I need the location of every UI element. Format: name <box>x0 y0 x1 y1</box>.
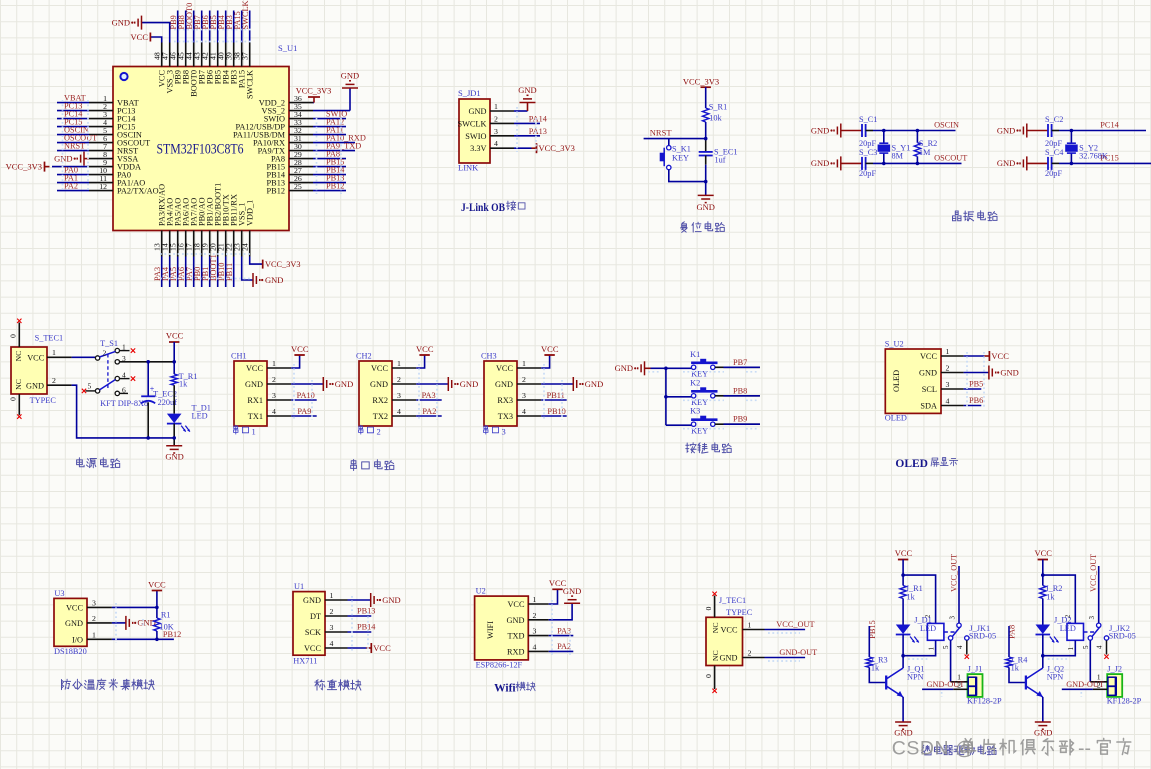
svg-text:VCC: VCC <box>66 603 84 612</box>
ground at U1 pin 35 VSS_2 <box>313 71 359 111</box>
section title 串口电路 <box>351 460 394 471</box>
svg-text:3: 3 <box>92 598 96 607</box>
svg-text:U3: U3 <box>54 589 64 598</box>
TEC1 bottom pin (NC) <box>9 379 24 415</box>
svg-text:GND: GND <box>26 382 44 391</box>
svg-text:TX3: TX3 <box>498 412 513 421</box>
svg-text:VDD_1: VDD_1 <box>246 200 255 226</box>
U1 pin 24 (VDD_1) <box>241 200 255 257</box>
capacitor T_EC2 220uf <box>141 362 177 438</box>
svg-text:TYPEC: TYPEC <box>726 608 753 617</box>
svg-text:1: 1 <box>252 427 256 437</box>
svg-text:3: 3 <box>1088 616 1096 620</box>
svg-text:S_U1: S_U1 <box>278 43 297 53</box>
U1 pin 44 (BOOT0) <box>185 43 199 97</box>
svg-text:KFT DIP-8X8: KFT DIP-8X8 <box>100 399 148 408</box>
svg-text:20pF: 20pF <box>859 139 876 148</box>
wire GND-OUT <box>765 657 806 659</box>
svg-text:VCC: VCC <box>131 32 149 42</box>
svg-text:1k: 1k <box>871 664 880 673</box>
wire VCC_OUT <box>765 629 806 631</box>
svg-text:WIFI: WIFI <box>486 621 495 639</box>
svg-text:VCC: VCC <box>1034 548 1052 558</box>
svg-text:LED: LED <box>920 624 936 633</box>
svg-text:NC: NC <box>14 379 23 390</box>
no-connect x (J_TEC1 bottom) <box>712 689 716 693</box>
svg-text:20pF: 20pF <box>859 169 876 178</box>
U3 pin 2 (GND) <box>65 614 112 628</box>
power port VCC (relay J_Q2) <box>1034 548 1052 560</box>
wire PB7 to label <box>715 366 760 368</box>
svg-text:GND: GND <box>696 202 714 212</box>
svg-text:VCC: VCC <box>373 643 391 653</box>
U1 pin 46 (PB9) <box>169 43 183 85</box>
svg-text:J_TEC1: J_TEC1 <box>719 596 746 605</box>
wire gnd to S_C3 <box>841 162 862 164</box>
JD1 pin 2 (SWCLK) <box>457 114 514 128</box>
module U3 body (DS18B20) <box>54 598 87 646</box>
svg-text:PA3: PA3 <box>422 391 436 400</box>
no-connect x (contact 4) <box>1104 655 1108 659</box>
ground at JD1 pin 1 <box>514 85 537 111</box>
wire to relay coil <box>1043 575 1076 623</box>
svg-text:OSCOUT: OSCOUT <box>934 153 967 162</box>
wire PA15 (top) <box>241 11 243 43</box>
svg-text:4: 4 <box>272 407 276 416</box>
wire SWCLK (top) <box>249 11 251 43</box>
U1 pin 28 (PB15) <box>267 158 313 172</box>
svg-text:1: 1 <box>1067 647 1075 651</box>
wire PB13 <box>348 615 372 617</box>
wire BOOT1 (bottom) <box>217 257 219 288</box>
resistor J_R4 1k <box>1006 655 1028 672</box>
wire VCC down <box>1042 560 1044 586</box>
svg-text:3: 3 <box>494 127 498 136</box>
relay coil J_JK1 SRD-05 <box>924 614 996 650</box>
svg-text:GND: GND <box>894 728 912 738</box>
svg-text:2: 2 <box>52 376 56 385</box>
svg-text:GND: GND <box>811 158 829 168</box>
svg-text:S_TEC1: S_TEC1 <box>35 334 64 343</box>
wire PB3 (top) <box>233 11 235 43</box>
svg-text:CH2: CH2 <box>356 352 372 361</box>
svg-text:GND: GND <box>919 369 937 378</box>
U1 pin 33 (PA12/USB/DP) <box>236 118 314 132</box>
wire emitter to gnd <box>902 697 904 722</box>
svg-text:PB12: PB12 <box>163 630 181 639</box>
svg-text:CH1: CH1 <box>231 352 247 361</box>
relay contact 4 stub <box>966 640 968 654</box>
svg-text:1: 1 <box>330 591 334 600</box>
ground (CH3) <box>541 377 603 391</box>
connector CH1 body <box>234 361 267 426</box>
svg-text:HX711: HX711 <box>293 657 317 666</box>
svg-text:4: 4 <box>397 407 401 416</box>
junction <box>916 162 920 166</box>
wire SWIO <box>313 118 346 120</box>
svg-text:VCC: VCC <box>895 548 913 558</box>
svg-text:GND: GND <box>65 619 83 628</box>
U1 pin 2 (PC13) <box>89 102 135 116</box>
svg-text:LINK: LINK <box>458 163 479 173</box>
resistor J_R1 1k <box>900 584 923 602</box>
U1 pin 45 (PB8) <box>177 43 191 85</box>
svg-text:PA2: PA2 <box>557 642 571 651</box>
wire PC14 <box>57 118 89 120</box>
TEC1 top pin (NC) <box>9 323 24 362</box>
CH3 pin 3 (RX3) <box>497 391 541 405</box>
svg-text:VCC_OUT: VCC_OUT <box>949 554 958 592</box>
svg-text:NRST: NRST <box>64 142 85 151</box>
wire PB4 (top) <box>225 11 227 43</box>
J_TEC1 bottom pin (NC) <box>704 650 720 689</box>
wire PB9 to label <box>715 423 760 425</box>
section title 电源电路 <box>77 458 120 468</box>
svg-text:4: 4 <box>494 139 498 148</box>
power port VCC_3V3 at U1 pin 24 <box>250 257 301 270</box>
svg-text:KF128-2P: KF128-2P <box>1107 696 1142 705</box>
no-connect x (S1 pin5) <box>82 389 86 393</box>
svg-text:PB14: PB14 <box>357 623 376 632</box>
U1 pin 3 (PC14) <box>89 110 136 124</box>
svg-text:K1: K1 <box>690 350 700 359</box>
U1 pin 42 (PB6) <box>201 43 215 85</box>
svg-text:3: 3 <box>272 391 276 400</box>
svg-text:SDA: SDA <box>920 402 937 411</box>
power port VCC (CH1) <box>291 344 309 368</box>
JD1 pin 1 (GND) <box>469 102 514 116</box>
wire PA3 (wifi) <box>549 635 574 637</box>
wire PB7 (top) <box>201 11 203 43</box>
resistor R1 10K <box>154 607 174 639</box>
svg-text:PA2: PA2 <box>64 182 78 191</box>
svg-text:GND: GND <box>460 379 478 389</box>
U1 pin 9 (VDDA) <box>89 158 141 172</box>
section title Wifi模块 <box>494 682 535 695</box>
svg-text:2: 2 <box>103 349 107 358</box>
wire to relay coil <box>903 575 936 623</box>
wire gnd to node <box>645 367 651 369</box>
svg-text:1: 1 <box>52 348 56 357</box>
connector CH3 body <box>484 361 517 426</box>
wire node to EC1 <box>705 139 707 152</box>
U1 pin 22 (PB11/RX) <box>225 194 239 256</box>
wire VCC_OUT vertical <box>958 566 960 623</box>
U1 pin 41 (PB5) <box>209 43 223 85</box>
wire OSCIN <box>57 134 89 136</box>
svg-text:GND-OUT: GND-OUT <box>779 648 817 657</box>
no-connect x (S1 pin1) <box>131 348 135 352</box>
wire GND-OUT (relay) <box>1062 688 1093 690</box>
section title 按键电路 <box>686 443 731 453</box>
svg-text:5: 5 <box>942 645 950 649</box>
LED J_D1 <box>896 615 936 642</box>
svg-text:2: 2 <box>377 427 381 437</box>
wire LED to collector node <box>902 635 904 669</box>
wire VCC row <box>112 606 157 608</box>
svg-text:1k: 1k <box>1011 664 1020 673</box>
svg-text:KEY: KEY <box>672 154 689 163</box>
wire PC13 <box>57 110 89 112</box>
wire EC1 to gnd node <box>705 156 707 165</box>
svg-text:VCC: VCC <box>246 364 264 373</box>
svg-text:GND: GND <box>370 380 388 389</box>
pushbutton K3 KEY <box>690 407 717 436</box>
svg-text:GND-OUT: GND-OUT <box>1066 680 1104 689</box>
CH2 pin 3 (RX2) <box>372 391 416 405</box>
svg-text:PB5: PB5 <box>969 380 983 389</box>
J_J2 pin 2 stub <box>1093 680 1107 689</box>
svg-text:KF128-2P: KF128-2P <box>967 696 1002 705</box>
power port VCC at U1 pin 48 <box>131 32 162 43</box>
svg-text:SWCLK: SWCLK <box>246 70 255 99</box>
svg-text:TX2: TX2 <box>373 412 388 421</box>
wire PB14 <box>348 631 372 633</box>
svg-text:GND: GND <box>265 275 283 285</box>
J_J2 pin 1 stub <box>1090 673 1107 682</box>
connector J_TEC1 body <box>706 617 743 665</box>
wire PA3 (bottom) <box>161 257 163 288</box>
wire PA6 (bottom) <box>185 257 187 288</box>
wire PA2 (wifi) <box>549 650 574 652</box>
HX711 pin 4 (VCC) <box>304 639 348 653</box>
U1 pin 8 (VSSA) <box>89 150 138 164</box>
wire R to LED <box>1042 599 1044 625</box>
HX711 pin 3 (SCK) <box>305 623 348 637</box>
connector J_J2 KF128-2P <box>1107 665 1142 706</box>
wire VBAT <box>57 102 89 104</box>
U2 pin 1 (VCC) <box>507 595 548 609</box>
svg-text:2: 2 <box>946 364 950 373</box>
svg-text:1k: 1k <box>1046 592 1055 601</box>
svg-text:3: 3 <box>522 391 526 400</box>
ground at U1 pin 23 VSS_1 <box>242 257 284 288</box>
CH2 pin 1 (VCC) <box>371 359 416 373</box>
wire GND to bottom rail <box>72 385 175 438</box>
wire PB8 (top) <box>185 11 187 43</box>
svg-text:--: -- <box>1078 738 1091 760</box>
svg-text:VCC: VCC <box>166 331 184 341</box>
power port VCC (CH3) <box>541 344 559 368</box>
U1 pin 39 (PB3) <box>225 43 239 85</box>
J_TEC1 pin 2 (GND) <box>720 649 765 663</box>
U3 pin 1 (I/O) <box>72 630 112 644</box>
wire to K3 <box>666 424 692 426</box>
svg-text:S_R2: S_R2 <box>919 139 937 148</box>
svg-text:VCC_3V3: VCC_3V3 <box>683 77 719 87</box>
svg-text:RXD: RXD <box>507 647 525 656</box>
svg-text:J_J1: J_J1 <box>968 665 983 674</box>
wire to GND <box>705 182 707 196</box>
svg-text:PA14: PA14 <box>529 114 548 123</box>
svg-text:OSCIN: OSCIN <box>934 121 959 130</box>
svg-text:VCC: VCC <box>720 626 738 635</box>
wire coil bottom <box>1043 640 1076 655</box>
connector S_TEC1 body <box>11 347 47 394</box>
U1 pin 15 (PA5/AO) <box>169 198 183 257</box>
svg-text:ESP8266-12F: ESP8266-12F <box>476 661 523 670</box>
power port VCC (DS18B20) <box>148 580 166 608</box>
svg-text:DT: DT <box>310 612 321 621</box>
CH2 pin 4 (TX2) <box>373 407 416 421</box>
wire PA2 <box>416 415 442 417</box>
U1 pin 34 (SWIO) <box>264 110 313 124</box>
U1 pin 7 (NRST) <box>89 142 138 156</box>
junction <box>155 638 159 642</box>
svg-text:3: 3 <box>948 616 956 620</box>
U1 pin 20 (PB2/BOOT1) <box>209 183 223 257</box>
svg-text:GND: GND <box>1034 728 1052 738</box>
wire gnd to S_C2 <box>1027 130 1048 132</box>
wire PC15 <box>57 126 89 128</box>
power port VCC (wifi) <box>549 578 567 604</box>
wire PA9 <box>291 415 317 417</box>
svg-text:4: 4 <box>522 407 526 416</box>
wire OSCIN row <box>866 130 873 132</box>
svg-text:0: 0 <box>704 674 713 678</box>
junction <box>1070 129 1074 133</box>
svg-text:12: 12 <box>99 182 107 191</box>
U2 pin 4 (SDA) <box>920 397 963 411</box>
svg-text:4: 4 <box>1096 645 1104 649</box>
svg-text:1k: 1k <box>907 592 916 601</box>
svg-text:VCC_OUT: VCC_OUT <box>776 620 814 629</box>
U1 pin 14 (PA4/AO) <box>161 198 175 257</box>
U1 pin 4 (PC15) <box>89 118 135 132</box>
ground (CH1) <box>291 377 353 391</box>
wire PB6 <box>964 405 982 407</box>
CH1 pin 1 (VCC) <box>246 359 291 373</box>
wire PA5 (bottom) <box>177 257 179 288</box>
svg-text:25: 25 <box>294 182 302 191</box>
svg-text:SRD-05: SRD-05 <box>1109 632 1136 641</box>
svg-text:4: 4 <box>330 639 334 648</box>
svg-text:PB8: PB8 <box>733 386 747 395</box>
wire NRST to key <box>668 139 670 146</box>
module U1 body (HX711) <box>293 592 325 656</box>
svg-text:1: 1 <box>522 359 526 368</box>
wire base <box>1009 667 1026 682</box>
ground (keys) <box>615 361 645 375</box>
TEC1 pin 2 (GND) <box>26 376 72 391</box>
wire PB6 (top) <box>209 11 211 43</box>
wire I/O row <box>112 638 174 640</box>
svg-text:GND: GND <box>811 125 829 135</box>
U1 pin 29 (PA8) <box>271 150 313 164</box>
resistor J_R2 1k <box>1040 584 1063 602</box>
ground (OLED) <box>964 366 1019 380</box>
ground (HX711) <box>348 593 401 607</box>
wire emitter to gnd <box>1042 697 1044 722</box>
svg-text:4: 4 <box>956 645 964 649</box>
svg-text:3: 3 <box>533 627 537 636</box>
CH2 pin 2 (GND) <box>370 375 416 389</box>
svg-text:10k: 10k <box>709 114 722 123</box>
svg-text:VCC: VCC <box>496 364 514 373</box>
wire PC15 row <box>1052 162 1059 164</box>
svg-text:Wifi: Wifi <box>494 683 516 695</box>
junction <box>882 129 886 133</box>
power port VCC_3V3 at U1 pin 36 <box>296 87 332 103</box>
ground (DS18B20) <box>112 616 156 630</box>
wire VCC_OUT vertical <box>1098 566 1100 623</box>
section title 称重模块 <box>315 680 361 691</box>
ground (to S_C2) <box>997 124 1027 138</box>
power port VCC_3V3 at JD1 pin 4 <box>514 143 575 153</box>
relay coil J_JK2 SRD-05 <box>1064 614 1136 650</box>
svg-text:S_C4: S_C4 <box>1045 148 1064 157</box>
svg-text:2: 2 <box>533 611 537 620</box>
svg-text:SWCLK: SWCLK <box>241 0 250 29</box>
transistor J_Q1 NPN <box>886 665 924 698</box>
svg-text:CSDN @: CSDN @ <box>892 738 975 760</box>
svg-text:PB7: PB7 <box>733 358 747 367</box>
HX711 pin 1 (GND) <box>303 591 347 605</box>
wire GND-OUT (relay) <box>922 688 953 690</box>
junction <box>882 162 886 166</box>
svg-text:RX2: RX2 <box>372 396 388 405</box>
svg-text:GND: GND <box>165 451 183 461</box>
U1 pin 43 (PB7) <box>193 43 207 85</box>
connector J_J1 KF128-2P <box>967 665 1002 706</box>
svg-text:OLED: OLED <box>895 458 928 470</box>
section title 复位电路 <box>681 222 725 233</box>
connector CH2 body <box>359 361 392 426</box>
svg-text:SCK: SCK <box>305 628 321 637</box>
junction <box>146 360 150 364</box>
J_J1 pin 2 stub <box>953 680 967 689</box>
junction <box>1041 573 1045 577</box>
U1 pin 12 (PA2/TX/AO) <box>89 182 159 196</box>
svg-text:VCC: VCC <box>291 344 309 354</box>
transistor J_Q2 NPN <box>1026 665 1064 698</box>
wire PA10 <box>291 399 317 401</box>
dip switch T_S1 KFT DIP-8X8 <box>88 339 149 408</box>
ground (to S_C3) <box>811 156 841 170</box>
wire PA4 (bottom) <box>169 257 171 288</box>
section title 防水温度采集模块 <box>62 679 155 690</box>
U1 pin 5 (OSCIN) <box>89 126 142 140</box>
svg-text:S_C2: S_C2 <box>1045 115 1063 124</box>
svg-text:GND: GND <box>341 71 359 81</box>
section title OLED屏显示 <box>895 458 957 470</box>
wire NRST <box>57 150 89 152</box>
ground (to S_C4) <box>997 156 1027 170</box>
wire PB8 to label <box>715 395 760 397</box>
svg-text:GND: GND <box>112 17 130 27</box>
wire PA14 <box>514 122 540 124</box>
svg-text:RX3: RX3 <box>497 396 513 405</box>
LED T_D1 <box>167 404 211 432</box>
section title 晶振电路 <box>953 211 998 221</box>
wire key to bottom node <box>669 170 706 182</box>
svg-text:VCC: VCC <box>27 354 45 363</box>
svg-text:2: 2 <box>92 614 96 623</box>
wire PB7 <box>723 366 760 368</box>
svg-text:VCC: VCC <box>991 351 1009 361</box>
wire gnd to S_C4 <box>1027 162 1048 164</box>
svg-text:GND: GND <box>507 616 525 625</box>
wire gnd to S_C1 <box>841 130 862 132</box>
section title J-Link OB接口 <box>461 201 525 214</box>
connection hint dots <box>63 30 1082 698</box>
U1 pin 1 (VBAT) <box>89 94 139 108</box>
watermark chinese part <box>961 738 1131 760</box>
wire VCC down <box>902 560 904 586</box>
junction <box>1041 654 1045 658</box>
svg-text:5: 5 <box>88 381 92 390</box>
U1 pin 10 (PA0) <box>89 166 131 180</box>
